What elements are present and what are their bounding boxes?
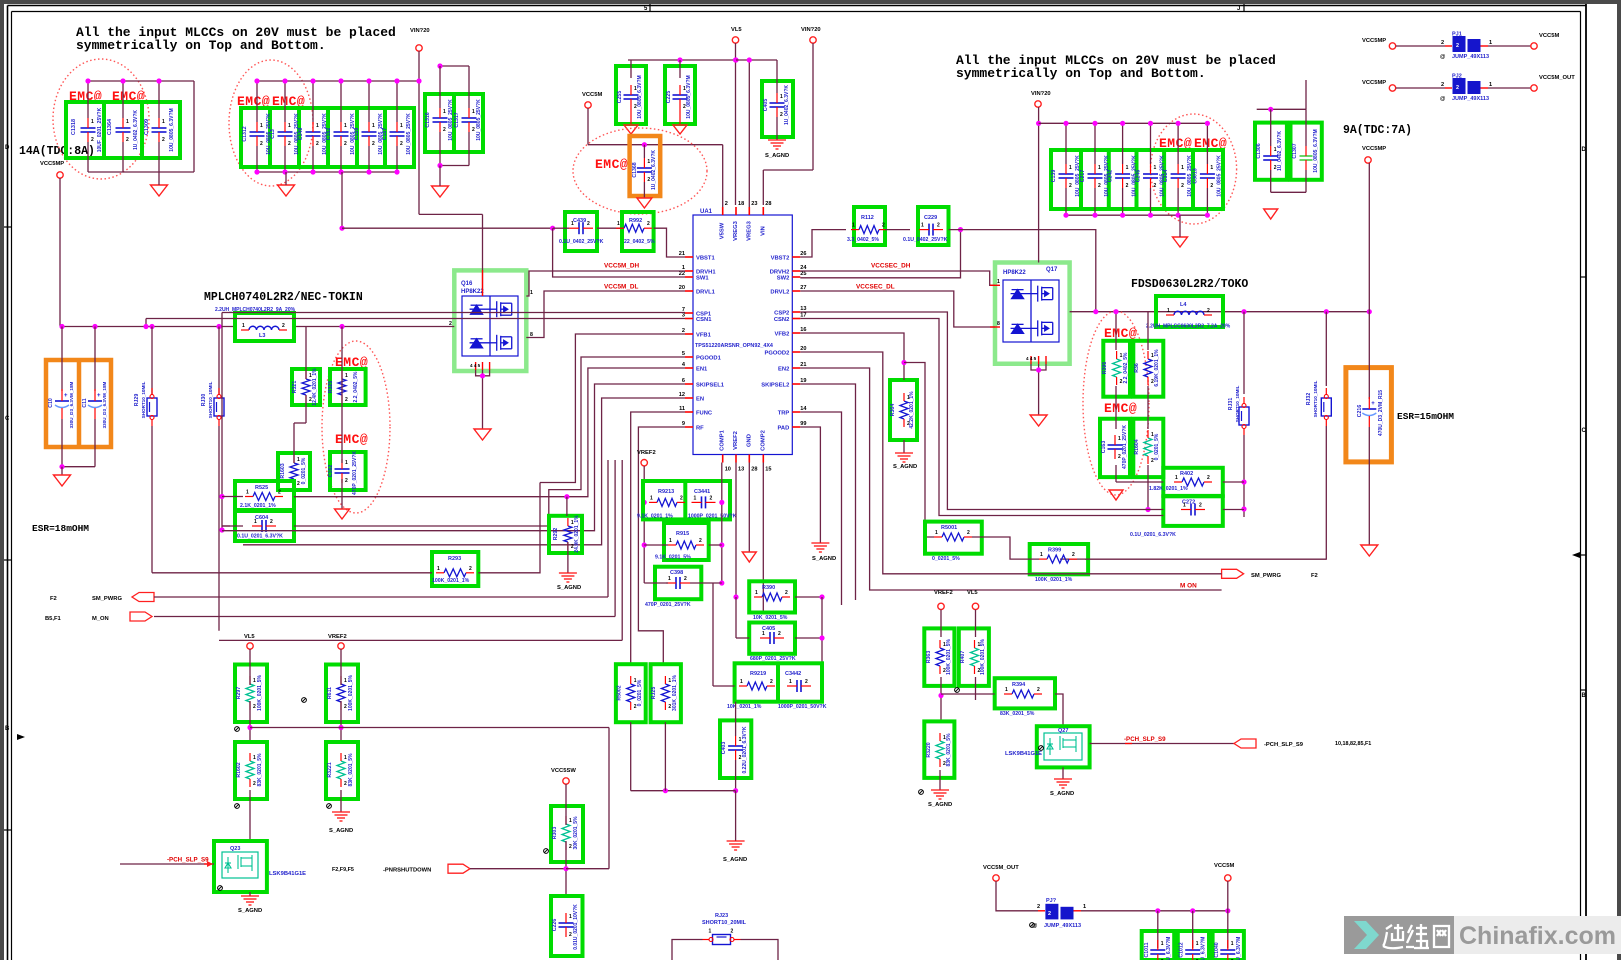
svg-text:@: @ bbox=[1440, 96, 1446, 102]
svg-text:4 4 5: 4 4 5 bbox=[1026, 356, 1037, 361]
svg-text:S_AGND: S_AGND bbox=[1050, 791, 1074, 797]
svg-text:RJ23: RJ23 bbox=[715, 913, 728, 919]
svg-text:S_AGND: S_AGND bbox=[893, 464, 917, 470]
svg-text:2: 2 bbox=[282, 323, 285, 329]
svg-text:8: 8 bbox=[997, 321, 1000, 327]
svg-text:1: 1 bbox=[762, 631, 765, 637]
svg-text:10U_0805_25V?K: 10U_0805_25V?K bbox=[476, 99, 482, 141]
svg-text:10UF_0201_25V?K: 10UF_0201_25V?K bbox=[97, 107, 103, 152]
svg-text:470U_D3_2VM_R15: 470U_D3_2VM_R15 bbox=[1378, 390, 1384, 436]
svg-text:1: 1 bbox=[472, 109, 475, 115]
svg-text:F2: F2 bbox=[50, 596, 57, 602]
svg-text:C1307: C1307 bbox=[1292, 143, 1298, 158]
svg-text:VCC5M_OUT: VCC5M_OUT bbox=[983, 865, 1019, 871]
svg-text:R399: R399 bbox=[1048, 548, 1061, 554]
svg-text:1: 1 bbox=[297, 457, 300, 463]
svg-text:VREF2: VREF2 bbox=[328, 634, 347, 640]
svg-text:1: 1 bbox=[650, 495, 653, 501]
svg-text:C3013: C3013 bbox=[1192, 168, 1198, 183]
svg-text:R9213: R9213 bbox=[658, 489, 674, 495]
svg-text:VREG3: VREG3 bbox=[746, 220, 752, 240]
svg-text:S_AGND: S_AGND bbox=[329, 828, 353, 834]
svg-text:1: 1 bbox=[91, 119, 94, 125]
svg-text:Q23: Q23 bbox=[230, 846, 240, 852]
svg-text:1: 1 bbox=[288, 123, 291, 129]
svg-text:3: 3 bbox=[682, 313, 685, 319]
svg-text:C1012: C1012 bbox=[1179, 942, 1185, 957]
svg-text:1: 1 bbox=[344, 755, 347, 761]
svg-text:1: 1 bbox=[780, 94, 783, 100]
svg-text:C1312: C1312 bbox=[242, 126, 248, 141]
svg-text:L3: L3 bbox=[259, 333, 265, 339]
svg-text:2: 2 bbox=[1037, 687, 1040, 693]
svg-text:C245: C245 bbox=[1136, 170, 1142, 183]
svg-text:F2,F9,F5: F2,F9,F5 bbox=[332, 867, 354, 873]
svg-text:M_ON: M_ON bbox=[92, 616, 109, 622]
svg-text:R321: R321 bbox=[292, 381, 298, 394]
svg-text:C1316: C1316 bbox=[425, 112, 431, 127]
svg-text:5: 5 bbox=[682, 351, 685, 357]
svg-text:1: 1 bbox=[253, 755, 256, 761]
svg-text:1: 1 bbox=[400, 123, 403, 129]
svg-text:2: 2 bbox=[253, 781, 256, 787]
svg-text:2: 2 bbox=[710, 495, 713, 501]
svg-text:R611: R611 bbox=[327, 687, 333, 699]
svg-text:EMC@: EMC@ bbox=[1104, 401, 1137, 416]
svg-text:1: 1 bbox=[1005, 687, 1008, 693]
svg-text:2: 2 bbox=[469, 566, 472, 572]
svg-text:14: 14 bbox=[800, 406, 807, 412]
svg-text:SW2: SW2 bbox=[777, 276, 790, 282]
svg-text:R407: R407 bbox=[960, 651, 966, 664]
svg-text:4 4 5: 4 4 5 bbox=[470, 363, 481, 368]
svg-text:2: 2 bbox=[668, 704, 671, 710]
svg-text:PAD: PAD bbox=[777, 426, 789, 432]
svg-text:Q27: Q27 bbox=[1058, 728, 1068, 734]
svg-text:1: 1 bbox=[1161, 941, 1164, 947]
svg-text:RJ30: RJ30 bbox=[201, 394, 207, 407]
svg-text:R297: R297 bbox=[236, 687, 242, 700]
svg-text:10U_0805_6.3V?M: 10U_0805_6.3V?M bbox=[686, 75, 692, 118]
svg-text:COMP1: COMP1 bbox=[720, 429, 726, 450]
svg-text:2: 2 bbox=[967, 530, 970, 536]
svg-text:1: 1 bbox=[1154, 165, 1157, 171]
svg-text:R525: R525 bbox=[255, 485, 268, 491]
svg-text:C217: C217 bbox=[1080, 170, 1086, 183]
svg-text:VCC5M_OUT: VCC5M_OUT bbox=[1539, 75, 1575, 81]
svg-text:R390: R390 bbox=[762, 585, 775, 591]
svg-text:JUMP_49X113: JUMP_49X113 bbox=[1452, 54, 1489, 60]
svg-text:2: 2 bbox=[647, 221, 650, 227]
svg-text:20: 20 bbox=[800, 346, 806, 352]
svg-text:10U_0805_25V?K: 10U_0805_25V?K bbox=[406, 113, 412, 155]
svg-text:C: C bbox=[5, 416, 10, 422]
svg-text:27: 27 bbox=[800, 285, 806, 291]
svg-text:C: C bbox=[1582, 428, 1587, 434]
svg-text:1: 1 bbox=[1489, 82, 1492, 88]
svg-text:10K_0201_1%: 10K_0201_1% bbox=[727, 704, 762, 710]
svg-text:2: 2 bbox=[770, 679, 773, 685]
svg-text:83K_0201_5%: 83K_0201_5% bbox=[257, 753, 263, 787]
svg-text:ESR=18mOHM: ESR=18mOHM bbox=[32, 523, 89, 534]
svg-text:2: 2 bbox=[1072, 552, 1075, 558]
svg-text:3.3_0402_5%: 3.3_0402_5% bbox=[847, 237, 879, 243]
svg-text:10U_0805_6.3V?M: 10U_0805_6.3V?M bbox=[169, 108, 175, 151]
svg-text:VCCSEC_DH: VCCSEC_DH bbox=[871, 263, 911, 270]
svg-text:1: 1 bbox=[443, 109, 446, 115]
svg-text:TRP: TRP bbox=[778, 411, 790, 417]
svg-text:11: 11 bbox=[679, 406, 685, 412]
svg-text:2: 2 bbox=[1048, 911, 1051, 917]
svg-text:100K_0201_1%: 100K_0201_1% bbox=[432, 578, 470, 584]
svg-text:17: 17 bbox=[800, 313, 806, 319]
svg-text:1: 1 bbox=[668, 678, 671, 684]
svg-text:1U_6.3V?M: 1U_6.3V?M bbox=[1236, 937, 1242, 960]
svg-text:VL5: VL5 bbox=[967, 590, 978, 596]
svg-text:R915: R915 bbox=[676, 531, 689, 537]
svg-text:0.22U_0201_6.3V?K: 0.22U_0201_6.3V?K bbox=[742, 726, 748, 773]
svg-text:VCC5M_DH: VCC5M_DH bbox=[604, 263, 640, 270]
svg-text:0.1U_0402_25V?K: 0.1U_0402_25V?K bbox=[903, 237, 948, 243]
svg-text:2: 2 bbox=[1207, 475, 1210, 481]
svg-text:28: 28 bbox=[751, 467, 757, 473]
svg-text:JUMP_49X113: JUMP_49X113 bbox=[1044, 923, 1081, 929]
svg-text:SHORT10_10MIL: SHORT10_10MIL bbox=[1235, 385, 1240, 422]
svg-text:PJ?: PJ? bbox=[1046, 898, 1057, 904]
svg-text:2.1K_0201_1%: 2.1K_0201_1% bbox=[240, 503, 276, 509]
svg-text:C1368: C1368 bbox=[632, 162, 638, 177]
svg-text:SHORT10_10MIL: SHORT10_10MIL bbox=[141, 381, 146, 418]
svg-text:D: D bbox=[1582, 147, 1587, 153]
svg-text:VCC5MP: VCC5MP bbox=[1362, 38, 1386, 44]
svg-text:PGOOD1: PGOOD1 bbox=[696, 356, 722, 362]
svg-text:C1364: C1364 bbox=[107, 118, 113, 135]
svg-text:2: 2 bbox=[1126, 183, 1129, 189]
svg-text:UA1: UA1 bbox=[700, 209, 713, 215]
svg-text:2: 2 bbox=[1069, 183, 1072, 189]
svg-text:2: 2 bbox=[400, 141, 403, 147]
svg-text:1: 1 bbox=[1040, 552, 1043, 558]
svg-text:1: 1 bbox=[530, 290, 533, 296]
svg-text:@: @ bbox=[1440, 54, 1446, 60]
svg-text:330U_D3_6.3VM_18M: 330U_D3_6.3VM_18M bbox=[102, 381, 107, 428]
svg-text:+: + bbox=[64, 393, 68, 399]
svg-text:RJ31: RJ31 bbox=[1228, 398, 1234, 411]
svg-text:C314: C314 bbox=[1163, 170, 1169, 183]
svg-text:VCC5M: VCC5M bbox=[1214, 863, 1234, 869]
svg-text:C139: C139 bbox=[1051, 170, 1057, 183]
svg-text:24.9K_0201_1%: 24.9K_0201_1% bbox=[574, 515, 580, 553]
svg-text:SW1: SW1 bbox=[696, 276, 709, 282]
svg-text:C229: C229 bbox=[924, 215, 937, 221]
svg-text:J: J bbox=[1237, 6, 1240, 12]
svg-text:2: 2 bbox=[260, 141, 263, 147]
svg-text:2: 2 bbox=[316, 141, 319, 147]
svg-text:2: 2 bbox=[778, 631, 781, 637]
svg-text:12: 12 bbox=[679, 392, 685, 398]
svg-text:680P_0201_25V?K: 680P_0201_25V?K bbox=[750, 656, 796, 662]
svg-text:1: 1 bbox=[740, 679, 743, 685]
svg-text:30K_0201_5%: 30K_0201_5% bbox=[573, 816, 579, 850]
svg-text:2: 2 bbox=[684, 576, 687, 582]
svg-text:1: 1 bbox=[852, 223, 855, 229]
svg-text:VIN?20: VIN?20 bbox=[801, 27, 821, 33]
svg-text:1: 1 bbox=[126, 119, 129, 125]
svg-text:TPS51220ARSNR_OPN92_4X4: TPS51220ARSNR_OPN92_4X4 bbox=[695, 343, 773, 349]
svg-text:100K_0201_5%: 100K_0201_5% bbox=[348, 675, 354, 711]
svg-text:0_0201_5%: 0_0201_5% bbox=[932, 556, 960, 562]
svg-text:99: 99 bbox=[800, 421, 806, 427]
svg-text:S_AGND: S_AGND bbox=[238, 908, 262, 914]
svg-text:1: 1 bbox=[344, 678, 347, 684]
svg-text:42.2K_0201_1%: 42.2K_0201_1% bbox=[909, 391, 915, 429]
svg-text:16: 16 bbox=[800, 327, 806, 333]
svg-text:SHORT10_20MIL: SHORT10_20MIL bbox=[702, 920, 747, 926]
svg-text:2: 2 bbox=[345, 478, 348, 484]
svg-text:1000P_0201_50V?K: 1000P_0201_50V?K bbox=[778, 704, 827, 710]
svg-text:1: 1 bbox=[935, 530, 938, 536]
svg-text:C225: C225 bbox=[666, 91, 672, 104]
svg-text:2: 2 bbox=[699, 538, 702, 544]
svg-text:100K_0201_5%: 100K_0201_5% bbox=[946, 639, 952, 675]
svg-text:1: 1 bbox=[1118, 436, 1121, 442]
svg-text:2: 2 bbox=[1441, 40, 1444, 46]
svg-text:C242: C242 bbox=[1108, 170, 1114, 183]
svg-text:0_0201_5%: 0_0201_5% bbox=[637, 679, 643, 706]
svg-text:S_AGND: S_AGND bbox=[765, 153, 789, 159]
svg-text:2: 2 bbox=[344, 141, 347, 147]
svg-text:Q17: Q17 bbox=[1046, 267, 1058, 273]
svg-text:C439: C439 bbox=[573, 218, 586, 224]
svg-text:VREG3: VREG3 bbox=[733, 220, 739, 240]
svg-text:8: 8 bbox=[530, 332, 533, 338]
svg-text:2.2_0402_5%: 2.2_0402_5% bbox=[1123, 352, 1129, 383]
svg-text:2: 2 bbox=[731, 929, 734, 935]
svg-text:V5SW: V5SW bbox=[720, 222, 726, 239]
svg-text:2: 2 bbox=[587, 221, 590, 227]
svg-text:2: 2 bbox=[882, 223, 885, 229]
svg-text:2: 2 bbox=[297, 481, 300, 487]
svg-text:2: 2 bbox=[1210, 183, 1213, 189]
svg-text:COMP2: COMP2 bbox=[760, 430, 766, 451]
svg-text:R3220: R3220 bbox=[926, 742, 932, 757]
svg-text:1: 1 bbox=[1196, 941, 1199, 947]
svg-text:ESR=15mOHM: ESR=15mOHM bbox=[1397, 411, 1454, 422]
svg-text:C1040: C1040 bbox=[1214, 942, 1220, 957]
svg-text:C11: C11 bbox=[82, 398, 88, 407]
svg-text:+: + bbox=[97, 393, 101, 399]
svg-text:301K_0201_1%: 301K_0201_1% bbox=[672, 675, 678, 711]
svg-text:SHORT10_10MIL: SHORT10_10MIL bbox=[1313, 380, 1318, 417]
svg-text:2: 2 bbox=[937, 223, 940, 229]
svg-text:C1306: C1306 bbox=[1256, 143, 1262, 158]
svg-text:C149: C149 bbox=[298, 128, 304, 141]
svg-text:2: 2 bbox=[278, 490, 281, 496]
svg-text:2: 2 bbox=[1456, 43, 1459, 49]
svg-text:0.1U_0201_6.3V?K: 0.1U_0201_6.3V?K bbox=[1130, 532, 1176, 538]
svg-text:VCC5MP: VCC5MP bbox=[40, 161, 64, 167]
svg-text:1: 1 bbox=[569, 818, 572, 824]
svg-text:-PCH_SLP_S9: -PCH_SLP_S9 bbox=[1124, 736, 1166, 743]
svg-text:F2: F2 bbox=[1311, 573, 1318, 579]
svg-text:1: 1 bbox=[921, 223, 924, 229]
svg-text:PGOOD2: PGOOD2 bbox=[764, 351, 789, 357]
svg-text:1: 1 bbox=[345, 373, 348, 379]
svg-text:2: 2 bbox=[1154, 183, 1157, 189]
svg-text:2: 2 bbox=[270, 519, 273, 525]
svg-text:-PCH_SLP_S9: -PCH_SLP_S9 bbox=[1264, 742, 1304, 748]
svg-text:2: 2 bbox=[1199, 503, 1202, 509]
svg-text:2: 2 bbox=[785, 590, 788, 596]
svg-text:RF: RF bbox=[696, 426, 704, 432]
svg-text:2: 2 bbox=[443, 127, 446, 133]
svg-text:C1309: C1309 bbox=[144, 119, 150, 135]
svg-text:symmetrically on Top and Botto: symmetrically on Top and Bottom. bbox=[76, 38, 326, 53]
svg-text:DRVL2: DRVL2 bbox=[770, 290, 789, 296]
svg-text:C3441: C3441 bbox=[694, 489, 710, 495]
svg-text:1: 1 bbox=[617, 221, 620, 227]
svg-text:1: 1 bbox=[709, 929, 712, 935]
svg-text:2: 2 bbox=[472, 127, 475, 133]
svg-text:1: 1 bbox=[647, 159, 650, 165]
svg-text:470P_0201_25V?K: 470P_0201_25V?K bbox=[645, 602, 691, 608]
svg-text:1: 1 bbox=[254, 519, 257, 525]
svg-text:C159: C159 bbox=[354, 128, 360, 141]
svg-text:1: 1 bbox=[569, 914, 572, 920]
svg-text:C403: C403 bbox=[721, 742, 727, 755]
svg-text:C152: C152 bbox=[326, 128, 332, 141]
svg-text:0.01U_0201_10V?K: 0.01U_0201_10V?K bbox=[573, 904, 579, 950]
svg-text:SM_PWRG: SM_PWRG bbox=[1251, 573, 1281, 579]
svg-text:VCC5M_DL: VCC5M_DL bbox=[604, 284, 639, 291]
svg-text:0.1U_0402_25V?K: 0.1U_0402_25V?K bbox=[559, 239, 604, 245]
svg-text:2: 2 bbox=[344, 781, 347, 787]
svg-text:RJ32: RJ32 bbox=[1306, 393, 1312, 406]
svg-text:2.2_0402_5%: 2.2_0402_5% bbox=[353, 371, 359, 402]
svg-text:13: 13 bbox=[800, 306, 806, 312]
svg-text:GND: GND bbox=[746, 434, 752, 447]
svg-text:2: 2 bbox=[372, 141, 375, 147]
svg-text:VCC5M: VCC5M bbox=[582, 92, 602, 98]
svg-text:DRVL1: DRVL1 bbox=[696, 290, 716, 296]
svg-text:R3221: R3221 bbox=[327, 762, 333, 777]
svg-text:C1318: C1318 bbox=[71, 119, 77, 135]
svg-text:1: 1 bbox=[1210, 165, 1213, 171]
svg-text:R1602: R1602 bbox=[236, 762, 242, 777]
svg-text:C405: C405 bbox=[763, 99, 769, 112]
svg-text:83K_0201_5%: 83K_0201_5% bbox=[1000, 711, 1035, 717]
svg-text:2: 2 bbox=[569, 844, 572, 850]
svg-text:1: 1 bbox=[260, 123, 263, 129]
svg-text:R112: R112 bbox=[861, 215, 874, 221]
svg-text:10U_0805_6.3V?M: 10U_0805_6.3V?M bbox=[637, 75, 643, 118]
svg-text:1: 1 bbox=[997, 279, 1000, 285]
svg-text:MPLCH0740L2R2/NEC-TOKIN: MPLCH0740L2R2/NEC-TOKIN bbox=[204, 291, 363, 304]
svg-text:1: 1 bbox=[1069, 165, 1072, 171]
svg-text:2: 2 bbox=[1181, 183, 1184, 189]
svg-text:2: 2 bbox=[1207, 308, 1210, 314]
svg-text:R394: R394 bbox=[1012, 682, 1026, 688]
svg-text:C255: C255 bbox=[617, 91, 623, 104]
svg-text:21: 21 bbox=[679, 251, 685, 257]
svg-text:1: 1 bbox=[694, 495, 697, 501]
svg-text:VCC5M: VCC5M bbox=[1539, 33, 1559, 39]
svg-text:1: 1 bbox=[372, 123, 375, 129]
svg-text:1U_6.3V?M: 1U_6.3V?M bbox=[1201, 937, 1207, 960]
svg-text:2: 2 bbox=[126, 137, 129, 143]
svg-text:2: 2 bbox=[1118, 454, 1121, 460]
svg-text:2: 2 bbox=[345, 397, 348, 403]
svg-text:D: D bbox=[5, 145, 10, 151]
svg-text:18: 18 bbox=[738, 201, 744, 207]
svg-text:C157: C157 bbox=[382, 128, 388, 141]
svg-text:0_0201_5%: 0_0201_5% bbox=[1154, 433, 1160, 460]
svg-text:0.1U_0201_6.3V?K: 0.1U_0201_6.3V?K bbox=[237, 534, 283, 540]
svg-text:330U_D3_6.3VM_18M: 330U_D3_6.3VM_18M bbox=[69, 381, 74, 428]
svg-text:VIN?20: VIN?20 bbox=[410, 28, 430, 34]
svg-text:0_0201_5%: 0_0201_5% bbox=[301, 457, 307, 484]
svg-text:1U_6.3V?M: 1U_6.3V?M bbox=[1166, 937, 1172, 960]
svg-text:2: 2 bbox=[1441, 82, 1444, 88]
svg-text:B: B bbox=[5, 726, 10, 732]
svg-text:19: 19 bbox=[800, 378, 806, 384]
svg-text:13: 13 bbox=[738, 467, 744, 473]
svg-text:470P_0201_25V?K: 470P_0201_25V?K bbox=[352, 451, 358, 495]
svg-text:C3442: C3442 bbox=[785, 671, 801, 677]
svg-text:B5,F1: B5,F1 bbox=[45, 616, 62, 622]
svg-text:1: 1 bbox=[246, 490, 249, 496]
svg-text:2: 2 bbox=[162, 137, 165, 143]
svg-text:1U_0402_6.3V?K: 1U_0402_6.3V?K bbox=[133, 110, 139, 150]
svg-text:Q16: Q16 bbox=[461, 281, 473, 287]
svg-text:VCC5MP: VCC5MP bbox=[1362, 146, 1386, 152]
svg-text:10U_0805_6.3V?M: 10U_0805_6.3V?M bbox=[1313, 129, 1319, 172]
svg-text:2: 2 bbox=[725, 201, 728, 207]
svg-text:VBST2: VBST2 bbox=[771, 256, 790, 262]
svg-text:R395: R395 bbox=[1102, 362, 1108, 375]
svg-text:1: 1 bbox=[1181, 165, 1184, 171]
svg-text:R5002: R5002 bbox=[617, 685, 623, 700]
svg-text:2: 2 bbox=[253, 704, 256, 710]
svg-text:R363: R363 bbox=[926, 651, 932, 664]
svg-text:100K_0201_5%: 100K_0201_5% bbox=[980, 639, 986, 675]
svg-text:R364: R364 bbox=[890, 404, 896, 417]
svg-text:C1011: C1011 bbox=[1144, 942, 1150, 957]
svg-text:S_AGND: S_AGND bbox=[723, 857, 747, 863]
svg-text:2: 2 bbox=[647, 177, 650, 183]
svg-text:1: 1 bbox=[789, 679, 792, 685]
svg-text:1U_0402_6.3V?K: 1U_0402_6.3V?K bbox=[1277, 131, 1283, 171]
svg-text:9.1K_0201_5%: 9.1K_0201_5% bbox=[655, 555, 691, 561]
svg-text:-PCH_SLP_S9: -PCH_SLP_S9 bbox=[167, 857, 209, 864]
svg-text:9A(TDC:7A): 9A(TDC:7A) bbox=[1343, 124, 1412, 137]
svg-text:R36: R36 bbox=[1134, 363, 1140, 373]
svg-text:VCCSEC_DL: VCCSEC_DL bbox=[856, 284, 895, 291]
svg-text:1: 1 bbox=[316, 123, 319, 129]
svg-text:R1604: R1604 bbox=[1134, 439, 1140, 454]
svg-text:VBST1: VBST1 bbox=[696, 256, 715, 262]
svg-text:Chinafix.com: Chinafix.com bbox=[1459, 922, 1616, 950]
svg-text:25: 25 bbox=[800, 271, 806, 277]
svg-text:SKIPSEL2: SKIPSEL2 bbox=[761, 383, 789, 389]
svg-text:symmetrically on Top and Botto: symmetrically on Top and Bottom. bbox=[956, 66, 1206, 81]
svg-text:S_AGND: S_AGND bbox=[928, 802, 952, 808]
svg-text:1U_0402_6.3V?K: 1U_0402_6.3V?K bbox=[784, 85, 790, 125]
svg-text:2: 2 bbox=[569, 932, 572, 938]
svg-text:RJ29: RJ29 bbox=[134, 394, 140, 407]
svg-text:C13: C13 bbox=[270, 129, 276, 139]
svg-text:EMC@: EMC@ bbox=[595, 157, 628, 172]
